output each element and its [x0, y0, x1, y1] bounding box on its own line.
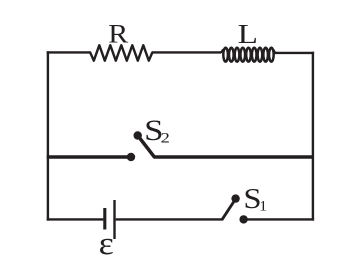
node: S2 upper contact dot — [134, 131, 142, 139]
node: S1 lower contact dot — [239, 215, 247, 223]
svg-text:R: R — [108, 19, 128, 49]
wire: middle right segment (thick) — [154, 155, 315, 159]
battery: short negative plate — [103, 208, 106, 230]
battery: long positive plate — [113, 200, 115, 239]
switch S2 arm — [138, 136, 155, 158]
wire: inductor to top-right corner — [275, 52, 315, 54]
wire: battery to S1 arm — [116, 218, 223, 220]
wire: middle left segment (thick) — [47, 155, 131, 159]
svg-text:2: 2 — [161, 131, 170, 147]
wire: S1 to bottom-right corner — [244, 218, 315, 220]
svg-text:L: L — [238, 18, 258, 49]
svg-text:ε: ε — [99, 226, 114, 262]
resistor R zigzag — [90, 45, 152, 61]
node: S2 left contact dot — [127, 153, 135, 161]
wire: left vertical — [47, 51, 49, 220]
node: S1 upper contact dot — [231, 194, 239, 202]
svg-text:1: 1 — [259, 199, 267, 215]
inductor L coil — [220, 48, 276, 62]
switch S1 arm — [222, 198, 236, 220]
wire: top-left lead to resistor — [47, 51, 91, 53]
wire: right vertical — [312, 52, 314, 221]
wire: resistor to inductor — [152, 51, 221, 53]
wire: bottom-left to battery — [47, 218, 104, 220]
